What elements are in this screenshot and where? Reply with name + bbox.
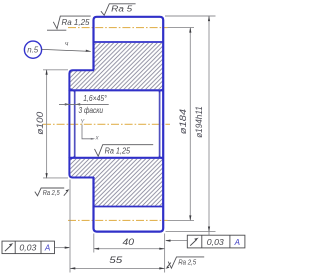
svg-text:ø100: ø100 xyxy=(35,112,45,135)
svg-text:Ra 2,5: Ra 2,5 xyxy=(43,188,61,197)
svg-text:ø194h11: ø194h11 xyxy=(194,106,204,138)
svg-text:A: A xyxy=(234,238,240,247)
svg-text:ø184: ø184 xyxy=(178,109,188,134)
svg-text:Ra 1,25: Ra 1,25 xyxy=(62,18,91,27)
svg-text:x: x xyxy=(95,136,100,142)
svg-text:0,03: 0,03 xyxy=(207,238,225,247)
svg-text:Ra 5: Ra 5 xyxy=(111,5,133,14)
svg-text:Ra 2,5: Ra 2,5 xyxy=(178,258,197,267)
svg-text:1,6×45°: 1,6×45° xyxy=(83,94,107,103)
svg-text:0,03: 0,03 xyxy=(19,243,37,252)
svg-text:A: A xyxy=(44,243,50,252)
svg-text:n.5: n.5 xyxy=(27,46,39,55)
svg-text:40: 40 xyxy=(123,237,135,247)
svg-text:55: 55 xyxy=(109,255,123,265)
svg-text:Ra 1,25: Ra 1,25 xyxy=(105,147,131,156)
svg-text:3 фаски: 3 фаски xyxy=(79,106,104,115)
svg-text:ч: ч xyxy=(65,41,69,48)
